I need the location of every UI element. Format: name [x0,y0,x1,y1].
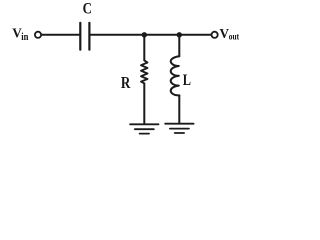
node dot L [177,32,182,37]
wire node to resistor [143,35,145,61]
svg-text:R: R [121,74,131,92]
label Vin [12,26,29,44]
svg-text:in: in [21,32,29,43]
label Vout [220,26,240,42]
capacitor C right plate [88,23,90,50]
wire resistor to ground [143,83,145,123]
wire input to capacitor [42,34,80,36]
wire capacitor to output terminal [91,34,212,36]
input terminal Vin [35,32,41,38]
node dot R [142,32,147,37]
capacitor C left plate [79,23,81,50]
ground under R [130,124,158,133]
svg-text:C: C [83,0,92,17]
output terminal Vout [212,32,218,38]
wire inductor to ground [178,95,180,123]
svg-text:L: L [183,71,191,89]
ground under L [165,124,193,133]
wire node to inductor [178,35,180,56]
svg-text:V: V [220,26,230,41]
resistor R zigzag [141,60,148,83]
inductor L coil [171,56,180,95]
svg-text:out: out [229,30,239,41]
